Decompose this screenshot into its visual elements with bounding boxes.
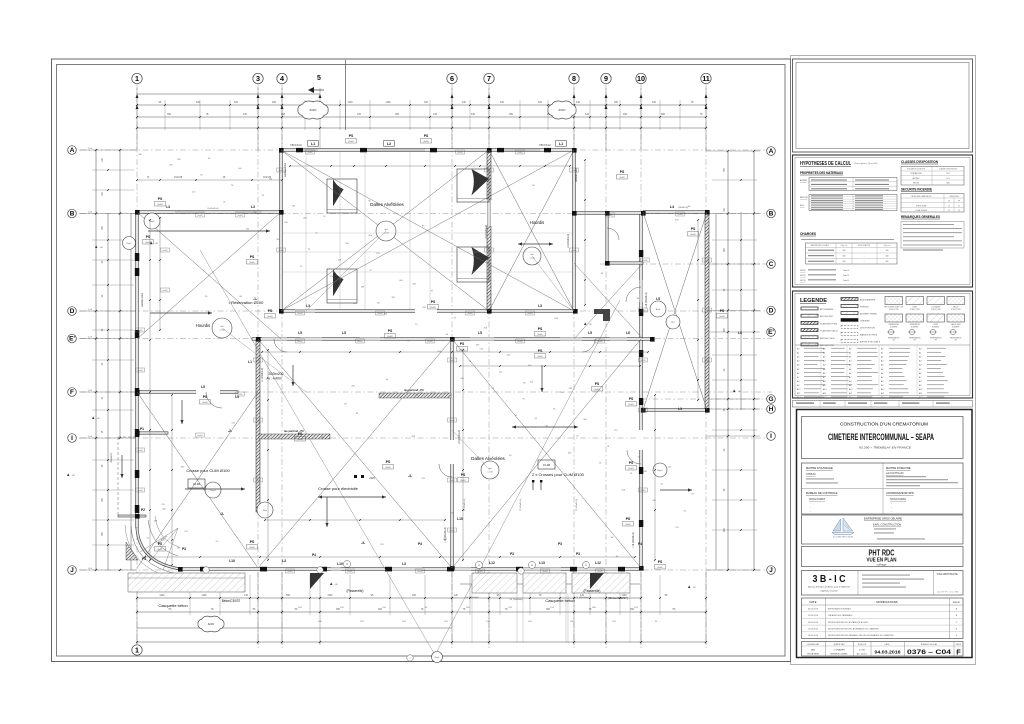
svg-text:400: 400 xyxy=(886,250,889,252)
svg-text:(9x45): (9x45) xyxy=(297,439,303,441)
svg-text:P2: P2 xyxy=(141,508,145,512)
svg-text:(9x45): (9x45) xyxy=(449,480,454,482)
svg-text:CLIM: CLIM xyxy=(543,463,551,467)
dim arrowhead xyxy=(705,94,708,98)
right dim stub xyxy=(712,499,757,501)
svg-text:L1: L1 xyxy=(248,360,252,364)
svg-text:PS: PS xyxy=(538,349,543,353)
grid line col 1 xyxy=(136,84,138,648)
svg-text:L3: L3 xyxy=(251,205,255,209)
svg-text:1100: 1100 xyxy=(327,594,333,597)
bottom dim stub xyxy=(659,575,661,615)
porch wall y=516 xyxy=(118,515,146,517)
diagonal cross small right room xyxy=(574,263,643,339)
top extension line x=489 xyxy=(488,88,490,150)
svg-text:(9x45): (9x45) xyxy=(255,420,260,422)
clim box 2 xyxy=(538,460,555,469)
bottom extension line xyxy=(257,572,259,645)
wall label box xyxy=(277,248,286,252)
bubble leader left xyxy=(79,569,85,571)
wall label box xyxy=(277,168,286,172)
right dim stub xyxy=(712,529,757,531)
right dim stub xyxy=(712,379,757,381)
wall label box xyxy=(606,213,615,217)
legend swatch mid 6 xyxy=(841,333,858,336)
svg-text:-3-: -3- xyxy=(220,512,224,516)
bottom row box xyxy=(802,642,964,657)
svg-text:BERCAL PLEIN: BERCAL PLEIN xyxy=(820,337,835,340)
grid line row H (right part) xyxy=(640,408,772,410)
svg-text:(9x45): (9x45) xyxy=(287,571,292,573)
bottom dim stub xyxy=(529,575,531,615)
svg-text:L5: L5 xyxy=(656,297,660,301)
svg-text:A3 : 1/100 e: A3 : 1/100 e xyxy=(857,652,867,655)
dim arrowhead xyxy=(573,94,576,98)
grid bubble 11 top xyxy=(701,73,711,83)
wall label box xyxy=(596,339,605,343)
svg-text:Av : 4.40m: Av : 4.40m xyxy=(266,377,282,381)
left dim stub xyxy=(92,284,134,286)
svg-text:(9x45): (9x45) xyxy=(477,571,482,573)
left dim stub xyxy=(92,239,134,241)
light construction horizontals xyxy=(283,232,572,234)
wall label box xyxy=(356,339,365,343)
svg-text:PROJETEUR: PROJETEUR xyxy=(807,653,819,655)
wall label box xyxy=(196,433,205,437)
grid line col 6 xyxy=(451,84,453,648)
svg-text:(9x45): (9x45) xyxy=(297,313,302,315)
wall label box xyxy=(286,569,295,573)
top dim stub xyxy=(679,100,681,130)
svg-text:A1: A1 xyxy=(796,352,799,355)
legend hatch box row1 4 xyxy=(947,297,965,305)
svg-text:350: 350 xyxy=(395,113,400,116)
date table row 3 xyxy=(802,624,964,626)
svg-text:300: 300 xyxy=(843,256,846,258)
wall label box xyxy=(416,569,425,573)
svg-text:MAITRE D'OUVRAGE: MAITRE D'OUVRAGE xyxy=(806,466,833,470)
grid bubble 6 top xyxy=(447,73,457,83)
svg-text:RECOUVRE JOINT COF: RECOUVRE JOINT COF xyxy=(884,307,903,309)
svg-text:2 h: 2 h xyxy=(948,210,950,212)
svg-text:E': E' xyxy=(69,336,75,343)
svg-text:tas parfond - PC: tas parfond - PC xyxy=(404,388,424,392)
svg-text:A: A xyxy=(70,147,75,154)
label L1 top xyxy=(308,141,319,147)
legend swatch left 3 xyxy=(801,321,818,324)
svg-text:1100: 1100 xyxy=(159,594,165,597)
svg-text:MODIFICATIONS: MODIFICATIONS xyxy=(876,600,897,604)
svg-text:0376 – C04: 0376 – C04 xyxy=(907,649,951,656)
annex voile wall col grid11 x=707 xyxy=(705,212,709,410)
right extension line xyxy=(706,150,760,152)
wall label box xyxy=(448,418,457,422)
svg-text:04.03.2016: 04.03.2016 xyxy=(875,650,901,655)
radial spokes curved corner xyxy=(140,528,178,552)
bottom dim stub xyxy=(589,575,591,615)
grid line row C (right part) xyxy=(600,263,772,265)
wall label box xyxy=(254,358,263,362)
legend hatch box row2 1 xyxy=(885,314,903,322)
right dim stub xyxy=(712,179,757,181)
svg-text:L16 (20x30+0): L16 (20x30+0) xyxy=(632,532,635,548)
left dim stub xyxy=(92,519,134,521)
span marker bottom big room xyxy=(481,461,499,479)
svg-text:PS: PS xyxy=(158,197,163,201)
wall label box xyxy=(196,213,205,217)
svg-text:NUMERO DE PLAN: NUMERO DE PLAN xyxy=(921,643,938,646)
bottom dim line 5 xyxy=(137,641,706,643)
svg-text:DESSINE PAR: DESSINE PAR xyxy=(807,643,820,646)
wall label box xyxy=(703,258,712,262)
svg-text:350: 350 xyxy=(509,113,514,116)
svg-text:DATE: DATE xyxy=(885,643,890,646)
svg-text:Δ04%: Δ04% xyxy=(208,623,215,626)
svg-text:1100: 1100 xyxy=(385,101,391,104)
svg-text:BETON EXIST: BETON EXIST xyxy=(820,316,834,318)
svg-text:• Réservation Ø100: • Réservation Ø100 xyxy=(229,300,265,305)
svg-text:EARL CONSTRUCTION: EARL CONSTRUCTION xyxy=(873,523,901,527)
svg-text:PS: PS xyxy=(268,309,273,313)
svg-text:BIM: BIM xyxy=(811,650,815,652)
svg-text:VB 0.5m2: VB 0.5m2 xyxy=(290,143,302,147)
bottom extension line xyxy=(488,572,490,645)
svg-text:(9x45): (9x45) xyxy=(255,480,260,482)
svg-text:(9x45): (9x45) xyxy=(377,313,382,315)
svg-text:NON-FOURNI: NON-FOURNI xyxy=(890,498,906,501)
svg-text:MODIFICATIONS DES RESEAUX SELO: MODIFICATIONS DES RESEAUX SELON LA DEMAN… xyxy=(828,634,894,637)
svg-text:120: 120 xyxy=(454,594,459,597)
wall label box xyxy=(161,288,170,292)
svg-text:STRUCTURE: STRUCTURE xyxy=(931,309,941,311)
spot level xyxy=(584,322,586,325)
svg-text:CLASSES D'EXPOSITION: CLASSES D'EXPOSITION xyxy=(901,160,939,164)
svg-text:350: 350 xyxy=(412,594,417,597)
svg-text:(2x20x35+0): (2x20x35+0) xyxy=(207,208,219,210)
svg-text:BERCAL EXIST: BERCAL EXIST xyxy=(820,344,835,347)
interior dim chain left rooms xyxy=(149,220,151,560)
svg-text:D: D xyxy=(769,308,774,315)
svg-text:EN: EN xyxy=(935,340,937,342)
svg-text:L5: L5 xyxy=(342,331,346,335)
legend swatch left 5 xyxy=(801,336,818,339)
svg-text:COULAGE: COULAGE xyxy=(932,306,941,309)
svg-text:(9x45): (9x45) xyxy=(449,360,454,362)
svg-text:ELEMENT PREFA: ELEMENT PREFA xyxy=(860,313,877,316)
svg-text:(9x45): (9x45) xyxy=(459,349,465,351)
svg-text:PS: PS xyxy=(431,300,436,304)
legend swatch mid 1 xyxy=(841,298,858,301)
svg-text:Dalles Alvéolées: Dalles Alvéolées xyxy=(471,456,505,461)
grid line row I xyxy=(80,437,772,439)
grid bubble J right xyxy=(767,566,776,575)
svg-text:1 h: 1 h xyxy=(958,205,960,207)
span arrow 1 xyxy=(292,365,294,386)
wall label box xyxy=(639,308,648,312)
extra dim chain y=366 xyxy=(460,365,640,367)
svg-text:PS: PS xyxy=(595,382,600,386)
column corbel C2 xyxy=(327,269,357,303)
span marker bottom left xyxy=(257,502,273,518)
corner casquette wedge xyxy=(126,542,138,560)
left dim stub xyxy=(92,259,134,261)
label L1 top 2 xyxy=(556,141,567,147)
svg-text:A4: A4 xyxy=(918,364,921,367)
svg-text:ATRIUM: ATRIUM xyxy=(806,473,815,476)
interior dim chain col3-4 xyxy=(267,350,269,560)
extra dim chain x=172 left rooms xyxy=(171,395,173,565)
svg-text:L1: L1 xyxy=(559,142,563,146)
wall label box xyxy=(641,258,650,262)
legend hatch box row2 3 xyxy=(927,314,945,322)
plancher note line xyxy=(801,238,894,241)
grid line row D xyxy=(80,310,772,312)
svg-text:C5 (20x45+0): C5 (20x45+0) xyxy=(576,499,578,512)
left extension line xyxy=(85,338,137,340)
extra dim chain y=520 bottom rooms xyxy=(265,519,445,521)
top dim stub xyxy=(619,100,621,130)
svg-text:PS: PS xyxy=(658,560,663,564)
svg-text:(9x45): (9x45) xyxy=(357,341,362,343)
svg-text:F: F xyxy=(70,389,74,396)
grid line col 7 xyxy=(488,84,490,648)
diagonal leader long 1 xyxy=(200,250,435,655)
svg-text:L3: L3 xyxy=(402,562,406,566)
grid bubble A left xyxy=(68,146,77,155)
grid bubble 9 top xyxy=(601,73,611,83)
crosses marks xyxy=(532,482,534,490)
svg-text:PS: PS xyxy=(250,540,255,544)
svg-text:(9x45): (9x45) xyxy=(517,152,522,154)
svg-text:(9x45): (9x45) xyxy=(137,490,142,492)
diagonal cross central room A xyxy=(281,150,489,311)
diagonal cross annex xyxy=(643,212,707,410)
svg-text:(BétonC30/37): (BétonC30/37) xyxy=(608,596,628,600)
svg-text:VISA ARCHITECTE: VISA ARCHITECTE xyxy=(937,573,959,576)
right extension line xyxy=(706,435,760,437)
dim arrowhead xyxy=(136,94,139,98)
svg-text:JOINT: JOINT xyxy=(912,307,917,309)
grid bubble G right xyxy=(767,395,776,404)
grid bubble 4 top xyxy=(277,73,287,83)
door arc row E' 2 xyxy=(582,339,595,352)
bottom dim stub xyxy=(219,575,221,615)
left dim stub xyxy=(92,489,134,491)
legend swatch mid 3 xyxy=(841,312,858,315)
wall label box xyxy=(254,418,263,422)
svg-text:(9x45): (9x45) xyxy=(385,467,391,469)
svg-text:11: 11 xyxy=(702,74,710,83)
wall pilasters col1 xyxy=(135,253,140,261)
svg-text:REMARQUES GENERALES: REMARQUES GENERALES xyxy=(901,215,940,219)
svg-text:L5 (20x30+0): L5 (20x30+0) xyxy=(485,225,488,239)
wall label box xyxy=(448,528,457,532)
svg-text:Ingénieur Conseil: Ingénieur Conseil xyxy=(820,591,838,593)
left extension line xyxy=(85,391,137,393)
svg-text:Bouf: Bouf xyxy=(656,309,661,311)
svg-text:A11: A11 xyxy=(796,392,800,395)
svg-text:G kg / m²: G kg / m² xyxy=(841,244,848,247)
svg-text:BétonC30/37: BétonC30/37 xyxy=(222,599,241,603)
wall label box xyxy=(541,569,550,573)
wall top row A (grid4-grid8) xyxy=(281,149,574,152)
svg-text:COORDINATEUR SPS: COORDINATEUR SPS xyxy=(886,491,914,495)
svg-text:WC: WC xyxy=(671,322,675,324)
diagonal cross room hourdis top xyxy=(489,150,574,311)
wall label box xyxy=(476,569,485,573)
svg-text:120: 120 xyxy=(424,101,429,104)
svg-text:Q kg / m²: Q kg / m² xyxy=(884,244,891,247)
wall label box xyxy=(639,488,648,492)
window circle bottom mid xyxy=(344,561,351,568)
wall pilasters row A top xyxy=(296,148,303,152)
svg-text:ELEMENT: ELEMENT xyxy=(932,326,940,328)
svg-text:ACIE A BARRER: ACIE A BARRER xyxy=(860,299,876,302)
spot level xyxy=(688,585,690,588)
left dim stub xyxy=(92,409,134,411)
svg-text:CIMETIERE INTERCOMMUNAL – SEAP: CIMETIERE INTERCOMMUNAL – SEAPA xyxy=(828,432,934,442)
sailboat logo xyxy=(832,518,854,535)
legend abbreviation table xyxy=(795,344,970,346)
top dim stub xyxy=(469,100,471,130)
bottom dim line 1 xyxy=(460,583,640,585)
date table row 1 xyxy=(802,611,964,613)
voile wall col grid7 x=489 xyxy=(487,150,491,311)
left extension line xyxy=(85,437,137,439)
svg-text:dal: dal xyxy=(531,254,534,256)
svg-text:5: 5 xyxy=(317,75,321,82)
legend swatch left 2 xyxy=(801,314,818,317)
dim arrowhead xyxy=(605,94,608,98)
top dim stub xyxy=(429,100,431,130)
svg-text:PS: PS xyxy=(203,395,208,399)
grid bubble D left xyxy=(68,307,77,316)
legend hatch box row1 2 xyxy=(906,297,924,305)
svg-text:L3: L3 xyxy=(166,205,170,209)
svg-text:6: 6 xyxy=(450,74,454,83)
title block frame xyxy=(797,410,973,658)
svg-text:P4: P4 xyxy=(312,553,316,557)
svg-text:L5: L5 xyxy=(478,331,482,335)
svg-text:(9x45): (9x45) xyxy=(449,420,454,422)
svg-text:(9x45): (9x45) xyxy=(640,310,645,312)
svg-text:CF: CF xyxy=(948,201,950,203)
svg-text:18.06.2016: 18.06.2016 xyxy=(808,635,819,637)
svg-text:PS: PS xyxy=(629,397,634,401)
svg-text:J: J xyxy=(70,567,74,574)
top dim stub xyxy=(519,100,521,130)
svg-text:-3-: -3- xyxy=(361,541,365,545)
diagonal cross bottom middle right room xyxy=(452,339,641,568)
tas parfond band 2 xyxy=(379,393,451,398)
wall label box xyxy=(676,212,685,216)
svg-text:260: 260 xyxy=(614,101,619,104)
bottom dim stub xyxy=(559,575,561,615)
svg-text:(9x45): (9x45) xyxy=(157,204,163,206)
svg-text:Casquette béton: Casquette béton xyxy=(545,598,574,603)
svg-text:DALLE SUR: DALLE SUR xyxy=(951,323,961,326)
svg-text:08.10.2016: 08.10.2016 xyxy=(808,622,819,624)
wall row F y=392 (left block) xyxy=(137,391,238,394)
svg-text:A: A xyxy=(769,148,774,155)
svg-text:( Prescriptions, Fil aux BP ): ( Prescriptions, Fil aux BP ) xyxy=(854,162,879,165)
voile wall col grid3 x=258 xyxy=(256,339,260,512)
casquette edge drop xyxy=(516,593,518,643)
interior dim chain east room xyxy=(584,160,586,305)
right dim line 2 xyxy=(727,151,729,570)
top dimension line 3 xyxy=(137,127,706,129)
svg-text:(9x45): (9x45) xyxy=(677,214,682,216)
wall label box xyxy=(376,311,385,315)
left extension line xyxy=(85,213,137,215)
svg-text:BETON: BETON xyxy=(913,182,920,184)
curved wall bottom-left corner xyxy=(137,528,180,569)
grid bubble 10 top xyxy=(636,73,646,83)
grid bubble D right xyxy=(767,306,776,315)
svg-text:120: 120 xyxy=(538,101,543,104)
interior dim vertical grid6 room xyxy=(462,350,464,560)
svg-text:B: B xyxy=(769,211,774,218)
svg-text:PS: PS xyxy=(629,461,634,465)
svg-text:440: 440 xyxy=(576,101,581,104)
top dim stub xyxy=(547,100,549,130)
svg-text:F: F xyxy=(956,648,961,657)
svg-text:(9x45): (9x45) xyxy=(423,141,429,143)
extra interior leader lines xyxy=(222,328,306,392)
top extension line x=574 xyxy=(573,88,575,150)
interior dim chain y=180 left block xyxy=(137,179,282,181)
svg-text:INDICE: INDICE xyxy=(953,602,960,604)
svg-text:ELEMENT: ELEMENT xyxy=(890,326,898,328)
svg-text:Date B: Date B xyxy=(843,279,850,282)
svg-text:L5: L5 xyxy=(201,385,205,389)
grid bubble H right xyxy=(767,405,776,414)
svg-text:9: 9 xyxy=(604,74,608,83)
dim arrowhead xyxy=(319,94,322,98)
svg-text:Crosse pour électricité: Crosse pour électricité xyxy=(318,486,359,491)
svg-text:APPROBATION INITIALE: APPROBATION INITIALE xyxy=(828,607,852,610)
svg-text:E': E' xyxy=(768,329,774,336)
svg-text:-3-: -3- xyxy=(408,474,412,478)
svg-text:Rep2: Rep2 xyxy=(149,221,155,223)
svg-text:L2: L2 xyxy=(387,142,391,146)
maitre box xyxy=(802,463,964,514)
svg-text:STRUCTURE: STRUCTURE xyxy=(951,309,961,311)
svg-text:120: 120 xyxy=(500,101,505,104)
svg-text:(9x45): (9x45) xyxy=(417,571,422,573)
svg-text:A11: A11 xyxy=(848,392,852,395)
right dim stub xyxy=(712,289,757,291)
wall label box xyxy=(136,488,145,492)
grid line col 10 xyxy=(640,84,642,648)
svg-text:D: D xyxy=(70,308,75,315)
svg-text:(9x45): (9x45) xyxy=(137,450,142,452)
dim arrowhead xyxy=(281,94,284,98)
svg-text:BETON: BETON xyxy=(800,197,808,199)
svg-text:NOTE: NOTE xyxy=(800,270,806,272)
svg-text:PLANCHER DALLE: PLANCHER DALLE xyxy=(820,330,838,333)
legend symbol row3 1 xyxy=(888,329,893,334)
svg-text:P4: P4 xyxy=(638,542,642,546)
bottom extension line xyxy=(705,572,707,645)
svg-text:P1: P1 xyxy=(140,427,144,431)
legend hatch box row2 2 xyxy=(906,314,924,322)
diagonal left block lower xyxy=(137,392,258,568)
svg-text:L4: L4 xyxy=(670,205,674,209)
svg-text:PF: PF xyxy=(958,201,960,203)
small room wall y=263 xyxy=(607,262,643,264)
svg-text:1: 1 xyxy=(135,645,139,654)
